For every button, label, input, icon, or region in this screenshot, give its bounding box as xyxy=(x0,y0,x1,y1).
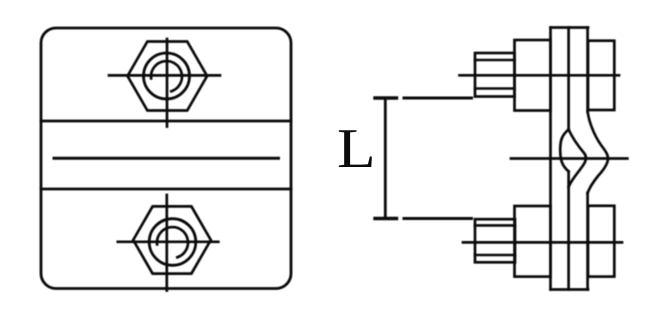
nut bottom (side view) xyxy=(588,206,614,277)
bolt head bottom thread line upper xyxy=(475,224,515,227)
groove left curve xyxy=(560,130,568,172)
bolt head bottom (side view) xyxy=(475,219,515,262)
plate seam lower xyxy=(567,172,570,290)
conductor axis middle xyxy=(511,157,627,160)
plate outer right edge lower xyxy=(586,193,589,290)
plate outer bulge xyxy=(588,112,608,194)
nut top (side view) xyxy=(588,41,614,110)
thread arc bottom xyxy=(157,227,188,257)
plate seam upper xyxy=(567,28,570,130)
body joint line upper xyxy=(41,120,291,123)
bolt head top thread line lower xyxy=(475,87,515,90)
clamp block top (side view) xyxy=(515,40,551,111)
plate outer right edge upper xyxy=(586,28,589,112)
plate top edge xyxy=(551,26,589,29)
clamp body (front view) xyxy=(41,28,291,289)
bolt circle top xyxy=(144,53,190,99)
bolt axis top xyxy=(460,74,620,77)
body joint line lower xyxy=(41,188,291,191)
centerline vertical bottom nut xyxy=(165,195,168,291)
bolt head bottom thread line lower xyxy=(475,254,515,257)
extension line bottom xyxy=(404,217,472,220)
centerline horizontal top nut xyxy=(109,74,220,77)
bolt head top (side view) xyxy=(475,53,515,97)
extension line top xyxy=(404,97,472,100)
clamp block bottom (side view) xyxy=(515,206,551,277)
hex nut bottom (front view) xyxy=(133,206,211,273)
centerline horizontal bottom nut xyxy=(118,240,219,243)
dimension tick top xyxy=(375,96,397,99)
dimension line L xyxy=(384,98,387,219)
hex nut top (front view) xyxy=(128,42,208,111)
bolt axis bottom xyxy=(463,241,622,244)
bolt circle bottom xyxy=(149,219,196,266)
plate bottom edge xyxy=(551,288,589,291)
plate left edge xyxy=(549,28,552,290)
groove right curve xyxy=(569,130,586,188)
dimension tick bottom xyxy=(375,217,397,220)
conductor line (front view) xyxy=(54,157,279,160)
centerline vertical top nut xyxy=(166,39,169,127)
dimension label L xyxy=(337,121,376,177)
thread arc top xyxy=(151,61,182,91)
bolt head top thread line upper xyxy=(475,59,515,62)
